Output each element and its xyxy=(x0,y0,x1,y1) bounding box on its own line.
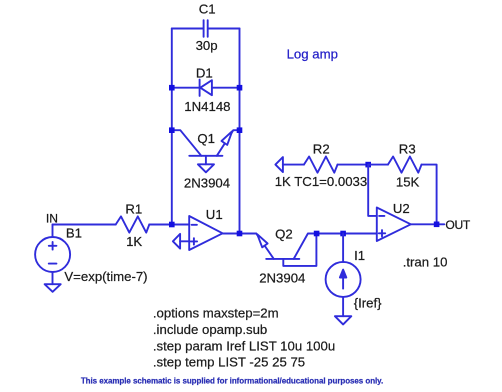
junction xyxy=(365,162,371,168)
svg-text:.tran 10: .tran 10 xyxy=(403,255,448,270)
junction xyxy=(314,231,320,237)
wire IN net xyxy=(53,224,116,226)
svg-text:R1: R1 xyxy=(125,202,142,217)
svg-text:V=exp(time-7): V=exp(time-7) xyxy=(64,269,147,284)
wire xyxy=(212,87,240,89)
junction xyxy=(237,85,243,91)
svg-text:D1: D1 xyxy=(196,66,213,81)
ground Q1 base xyxy=(198,164,214,172)
junction xyxy=(237,127,243,133)
wire xyxy=(411,223,445,225)
junction xyxy=(340,231,346,237)
wire xyxy=(180,240,189,242)
svg-text:OUT: OUT xyxy=(445,218,471,232)
svg-text:.include opamp.sub: .include opamp.sub xyxy=(153,322,267,337)
ground B1 xyxy=(45,284,61,292)
transistor Q2 xyxy=(256,234,316,266)
voltage source B1 xyxy=(35,225,70,285)
svg-text:2N3904: 2N3904 xyxy=(184,176,230,191)
junction xyxy=(237,231,243,237)
svg-text:C1: C1 xyxy=(199,1,216,16)
wire xyxy=(317,233,377,235)
wire xyxy=(283,164,304,166)
svg-text:This example schematic is supp: This example schematic is supplied for i… xyxy=(81,376,383,385)
wire xyxy=(338,164,369,166)
svg-text:U2: U2 xyxy=(393,201,410,216)
svg-text:R2: R2 xyxy=(313,142,330,157)
svg-text:1K: 1K xyxy=(126,234,142,249)
wire xyxy=(223,233,257,235)
svg-text:.options maxstep=2m: .options maxstep=2m xyxy=(153,305,279,320)
resistor R3 xyxy=(388,157,422,173)
wire xyxy=(239,29,241,234)
wire xyxy=(172,28,204,30)
transistor Q1 xyxy=(172,130,240,164)
wire xyxy=(368,165,377,216)
svg-text:15K: 15K xyxy=(396,174,420,189)
svg-text:.step param Iref LIST 10u 100u: .step param Iref LIST 10u 100u xyxy=(153,338,335,353)
svg-text:U1: U1 xyxy=(206,207,223,222)
svg-text:30p: 30p xyxy=(196,38,218,53)
svg-text:I1: I1 xyxy=(354,248,365,263)
svg-text:{Iref}: {Iref} xyxy=(354,295,382,310)
resistor R1 xyxy=(116,216,150,232)
capacitor C1 xyxy=(204,20,208,37)
ground R2 left xyxy=(275,157,283,172)
op-amp U2 xyxy=(377,208,411,242)
junction xyxy=(169,127,175,133)
svg-text:R3: R3 xyxy=(399,141,416,156)
svg-text:Q2: Q2 xyxy=(275,227,293,242)
svg-text:Q1: Q1 xyxy=(197,131,215,146)
ground U1 plus xyxy=(173,234,180,249)
svg-text:Log amp: Log amp xyxy=(287,47,338,62)
svg-text:.step temp LIST -25 25 75: .step temp LIST -25 25 75 xyxy=(153,355,305,370)
op-amp U1 xyxy=(189,216,222,250)
current source I1 xyxy=(326,234,361,317)
resistor R2 xyxy=(304,157,338,173)
svg-text:IN: IN xyxy=(46,212,58,226)
junction xyxy=(169,85,175,91)
wire xyxy=(171,29,173,225)
ground I1 xyxy=(335,316,351,324)
svg-text:1N4148: 1N4148 xyxy=(184,99,230,114)
junction xyxy=(169,222,175,228)
wire xyxy=(208,28,240,30)
wire xyxy=(149,224,189,226)
svg-text:B1: B1 xyxy=(66,225,82,240)
svg-text:2N3904: 2N3904 xyxy=(259,270,305,285)
svg-text:1K TC1=0.0033: 1K TC1=0.0033 xyxy=(275,174,368,189)
diode D1 xyxy=(200,80,212,96)
wire xyxy=(422,165,437,225)
wire xyxy=(368,164,388,166)
junction xyxy=(434,222,440,228)
wire xyxy=(172,87,200,89)
